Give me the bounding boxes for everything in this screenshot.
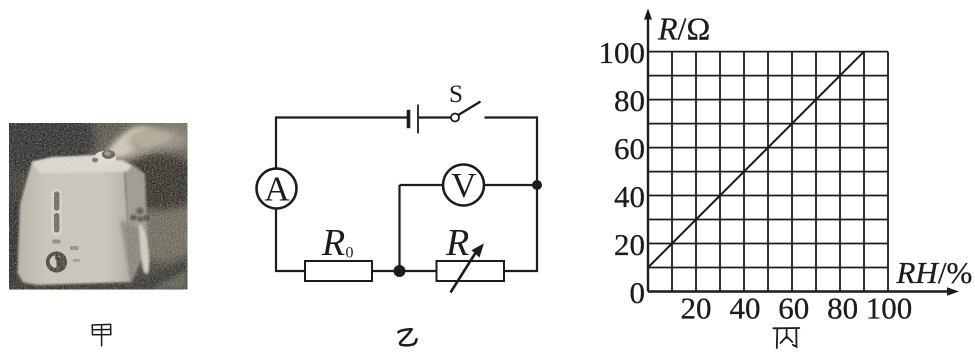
svg-text:100: 100	[599, 35, 646, 70]
svg-text:R/Ω: R/Ω	[657, 11, 710, 47]
svg-text:0: 0	[630, 275, 646, 310]
svg-text:40: 40	[614, 179, 645, 214]
svg-text:RH/%: RH/%	[896, 255, 973, 290]
svg-text:60: 60	[614, 131, 645, 166]
svg-text:60: 60	[778, 291, 809, 326]
svg-text:20: 20	[614, 227, 645, 262]
svg-text:100: 100	[866, 291, 913, 326]
svg-text:20: 20	[681, 291, 712, 326]
svg-text:80: 80	[827, 291, 858, 326]
svg-text:R: R	[321, 222, 345, 264]
svg-text:V: V	[451, 166, 476, 205]
svg-text:0: 0	[346, 245, 354, 262]
svg-text:R: R	[445, 222, 469, 264]
svg-text:40: 40	[730, 291, 761, 326]
svg-text:A: A	[264, 170, 290, 209]
svg-text:80: 80	[614, 83, 645, 118]
svg-text:S: S	[449, 81, 463, 108]
